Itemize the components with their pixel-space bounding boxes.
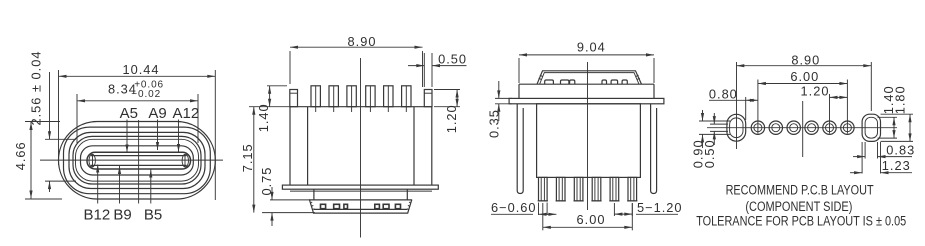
tooth 5 view2 xyxy=(383,204,389,208)
latch window 5 xyxy=(611,80,618,84)
extension line 8.34 right xyxy=(197,94,199,143)
insulator teeth-row top line view2 xyxy=(309,199,412,201)
shell leg left view3 xyxy=(517,104,523,194)
leg 6 view3 xyxy=(628,177,637,201)
shell ring 3 xyxy=(69,132,205,188)
extension line 4.66 bottom xyxy=(25,198,62,200)
svg-text:6−0.60: 6−0.60 xyxy=(491,200,537,215)
leader A9 xyxy=(157,120,159,151)
centerline view3 xyxy=(587,62,589,210)
tooth 6 view2 xyxy=(395,204,400,208)
svg-text:−0.02: −0.02 xyxy=(131,89,161,100)
cavity ring 6 xyxy=(81,146,194,175)
svg-text:0.50: 0.50 xyxy=(702,139,717,168)
dim 6.00 view4 xyxy=(758,83,848,85)
body view3 xyxy=(537,104,641,178)
shell box left xyxy=(518,84,520,98)
svg-text:1.20: 1.20 xyxy=(444,104,459,133)
leader A5 xyxy=(126,120,128,153)
extension 1.40 view4 bottom xyxy=(878,137,898,139)
right oval centerline xyxy=(870,62,872,111)
pad 6 xyxy=(841,121,854,134)
svg-text:4.66: 4.66 xyxy=(13,141,28,170)
extension 1.23 right xyxy=(880,142,882,174)
extension 6-0.60 left xyxy=(538,203,540,216)
leader B9 xyxy=(119,166,121,204)
extension 6.00 right view4 xyxy=(846,80,848,134)
left oval centerline xyxy=(736,62,738,149)
extension 5-1.20 left xyxy=(613,203,615,216)
svg-text:B9: B9 xyxy=(113,206,131,223)
flange view3 xyxy=(509,98,664,103)
extension 1.23 left xyxy=(861,142,863,174)
extension 0.75 top xyxy=(270,199,310,201)
extension 7.15 bottom xyxy=(262,212,315,214)
extension 0.83 right xyxy=(877,142,879,159)
extension 1.20 view4 xyxy=(829,94,831,134)
svg-text:1.20: 1.20 xyxy=(801,83,830,98)
extension 0.50 right xyxy=(431,53,433,87)
pad row centerline xyxy=(707,127,897,129)
dome slant hatch right xyxy=(636,75,640,79)
leader A12 xyxy=(178,120,180,153)
insulator bottom line 2 view2 xyxy=(313,212,408,214)
extension 6.00 left view4 xyxy=(757,80,759,134)
dim 10.44 xyxy=(59,75,216,77)
insulator left slant view2 xyxy=(310,200,314,213)
shell leg right view2 xyxy=(424,90,432,107)
extension 1.20 top right xyxy=(434,89,460,91)
dome slant hatch left xyxy=(539,75,543,79)
insulator box right view2 xyxy=(406,189,408,200)
tongue xyxy=(87,152,191,169)
svg-text:A5: A5 xyxy=(120,105,138,122)
right oval pad outer xyxy=(862,114,880,141)
extension 8.90 left xyxy=(289,51,291,84)
svg-text:9.04: 9.04 xyxy=(577,40,606,55)
dim 1.20 view4 xyxy=(830,96,848,98)
dim 1.20 view2 xyxy=(456,90,458,107)
tongue inner line top xyxy=(91,155,187,157)
dim 0.80 view4 xyxy=(709,99,746,101)
body top extension to 7.15 xyxy=(249,106,290,108)
cavity ring 5 xyxy=(76,139,199,181)
extension line 8.34 left xyxy=(76,94,78,143)
leg feet view3 xyxy=(538,200,548,202)
insulator right slant view2 xyxy=(408,200,412,213)
extension 1.80 view4 bottom xyxy=(881,140,914,142)
flange view2 xyxy=(282,185,438,189)
insulator bottom line 1 view2 xyxy=(314,208,407,210)
shell leg right view3 xyxy=(651,104,657,194)
svg-text:6.00: 6.00 xyxy=(790,69,819,84)
extension 0.50 lines xyxy=(710,123,728,125)
dim 0.83 xyxy=(853,156,865,158)
right oval pad inner xyxy=(865,117,877,138)
body left inner wall xyxy=(307,107,309,185)
extension 9.04 left xyxy=(518,58,520,83)
dim 1.40 view4 xyxy=(893,117,895,138)
pin 1 xyxy=(311,86,320,112)
body top line xyxy=(290,106,432,108)
body left outer wall xyxy=(289,107,291,185)
svg-text:0.83: 0.83 xyxy=(886,142,915,157)
centerline view1 xyxy=(40,159,223,161)
svg-text:7.15: 7.15 xyxy=(240,143,255,172)
dim 8.90 view4 xyxy=(736,65,871,67)
body right inner wall xyxy=(413,107,415,185)
shell box top line xyxy=(519,83,654,85)
svg-text:0.80: 0.80 xyxy=(709,86,738,101)
extension 6-0.60 right xyxy=(546,203,548,216)
dim 6.00 view3 xyxy=(543,226,633,228)
dim 1.80 view4 xyxy=(909,114,911,141)
leg 2 view3 xyxy=(556,177,565,201)
pad 4 xyxy=(805,121,818,134)
extension 0.35 top xyxy=(495,97,512,99)
extension 1.40 top xyxy=(267,85,287,87)
extension 0.83 left xyxy=(864,142,866,159)
body outer shell stadium xyxy=(59,122,216,200)
svg-text:A12: A12 xyxy=(173,105,200,122)
latch window 1 xyxy=(545,80,554,84)
svg-text:TOLERANCE FOR PCB LAYOUT IS ±: TOLERANCE FOR PCB LAYOUT IS ± 0.05 xyxy=(696,214,906,229)
extension 1.40 view4 top xyxy=(878,116,898,118)
shell ring 2 xyxy=(64,127,211,194)
pad 2 xyxy=(769,121,782,134)
extension 6.00 right xyxy=(631,203,633,230)
svg-text:8.90: 8.90 xyxy=(348,34,377,49)
extension 0.80 view4 xyxy=(745,97,747,120)
pad 5 xyxy=(823,121,836,134)
svg-text:(COMPONENT SIDE): (COMPONENT SIDE) xyxy=(745,199,852,214)
leader B5 xyxy=(150,170,152,204)
vertical centerline view4 xyxy=(802,101,804,157)
left oval pad outer xyxy=(727,114,746,141)
svg-text:1.23: 1.23 xyxy=(882,158,911,173)
svg-text:0.50: 0.50 xyxy=(438,52,467,67)
svg-text:1.80: 1.80 xyxy=(893,85,908,114)
tongue inner line bottom xyxy=(91,164,187,166)
extension 0.50 left xyxy=(423,53,425,87)
shell dome inner xyxy=(540,73,639,85)
pad 3 xyxy=(787,121,800,134)
extension 0.90 lines xyxy=(699,120,730,122)
shell leg left view2 xyxy=(290,90,298,107)
shell dome outer xyxy=(537,71,642,84)
leg 5 view3 xyxy=(610,177,619,201)
leg 1 view3 xyxy=(539,177,548,201)
left oval pad inner xyxy=(730,118,743,138)
pad 1 xyxy=(751,121,764,134)
shell ring 4 xyxy=(73,136,201,184)
svg-text:5−1.20: 5−1.20 xyxy=(637,200,683,215)
svg-text:10.44: 10.44 xyxy=(122,62,159,77)
extension 5-1.20 right xyxy=(631,203,633,216)
dim 1.40 view2 xyxy=(269,86,271,107)
tongue right end detail xyxy=(182,154,188,167)
extension line 2.56 top xyxy=(45,138,76,140)
tooth 3 view2 xyxy=(344,204,348,208)
extension 6.00 left xyxy=(542,203,544,230)
dim 0.50 view2 xyxy=(408,65,424,67)
leader long mid xyxy=(138,120,140,204)
svg-text:B12: B12 xyxy=(84,206,111,223)
extension 9.04 right xyxy=(653,58,655,83)
svg-text:0.75: 0.75 xyxy=(259,167,274,196)
dim 7.15 view2 xyxy=(253,107,255,213)
shell box right xyxy=(653,84,655,98)
centerline view2 xyxy=(360,58,362,238)
extension 8.90 right xyxy=(422,51,424,87)
svg-text:B5: B5 xyxy=(144,206,162,223)
svg-text:2.56 ± 0.04: 2.56 ± 0.04 xyxy=(29,51,44,126)
svg-text:6.00: 6.00 xyxy=(577,212,606,227)
dim 9.04 xyxy=(519,54,654,56)
dim 1.23 xyxy=(850,172,862,174)
tooth 2 view2 xyxy=(334,204,340,208)
tongue left end tick xyxy=(92,155,94,168)
tooth 1 view2 xyxy=(321,204,326,208)
tongue right end tick xyxy=(184,155,186,168)
body right outer wall xyxy=(431,107,433,185)
extension 0.35 bottom xyxy=(495,103,512,105)
svg-text:1.40: 1.40 xyxy=(256,103,271,132)
latch window 3 xyxy=(570,80,575,84)
latch window 4 xyxy=(602,80,607,84)
extension line 4.66 top xyxy=(25,121,60,123)
extension line 10.44 right xyxy=(214,70,216,200)
leader B12 xyxy=(97,165,99,204)
svg-text:0.35: 0.35 xyxy=(486,109,501,138)
dim 0.35 arrows xyxy=(498,81,500,98)
latch window 6 xyxy=(622,80,627,84)
pin 4 xyxy=(366,86,375,112)
pin 5 xyxy=(384,86,393,112)
dim 8.90 view2 xyxy=(290,46,423,48)
svg-text:RECOMMEND P.C.B LAYOUT: RECOMMEND P.C.B LAYOUT xyxy=(726,183,874,198)
dim 0.75 arrows view2 xyxy=(271,187,273,200)
extension line 10.44 left xyxy=(58,70,60,165)
pin 3 xyxy=(347,86,356,112)
leg 4 view3 xyxy=(592,177,601,201)
extension line 2.56 bottom xyxy=(45,180,76,182)
latch window 2 xyxy=(561,80,569,84)
tongue left end detail xyxy=(89,154,95,167)
dim 8.34 +0.06 -0.02 xyxy=(77,100,198,102)
pin 6 xyxy=(402,86,411,112)
tooth 4 view2 xyxy=(375,204,380,208)
svg-text:8.90: 8.90 xyxy=(791,52,820,67)
extension 1.20 bottom right xyxy=(434,106,460,108)
insulator step line view2 xyxy=(290,190,432,192)
pin 2 xyxy=(329,86,338,112)
extension 1.80 view4 top xyxy=(881,113,914,115)
leg 3 view3 xyxy=(574,177,583,201)
insulator box left view2 xyxy=(313,189,315,200)
